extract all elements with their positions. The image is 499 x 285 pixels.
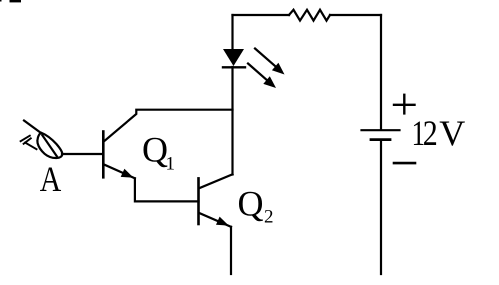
svg-text:1: 1 [166,154,176,175]
battery plus sign [394,95,415,114]
wire Q2 emitter down [230,227,232,274]
LED D1 [223,49,244,66]
LED emission arrow 1 [255,49,285,75]
transistor Q1 [103,132,135,179]
battery B1 [362,130,400,139]
wire node A to Q1 base [62,153,103,155]
svg-text:Q: Q [238,184,264,224]
svg-text:2: 2 [423,113,438,153]
label Q1 [142,129,175,174]
battery minus sign [394,162,415,165]
LED emission arrow 2 [248,64,276,89]
svg-text:V: V [439,113,465,153]
transistor Q2 [199,174,233,227]
wire battery bottom [380,141,382,274]
wire LED anode [231,15,233,50]
svg-text:A: A [40,159,62,199]
wire LED cathode down to collectors [231,67,233,175]
resistor R1 [289,10,330,21]
cropped text artifact top-left [0,0,21,2]
wire top-right segment [330,14,381,16]
probe symbol at input A [21,121,63,159]
LED cathode bar [223,66,245,68]
label 12V [412,113,466,153]
svg-text:2: 2 [264,207,274,228]
wire battery top [380,15,382,129]
wire Q1 emitter to Q2 base [135,178,199,201]
svg-text:Q: Q [142,129,168,169]
wire top-left segment [233,14,290,16]
wire Q1 collector [104,110,233,142]
label A [40,159,62,199]
label Q2 [238,184,274,228]
